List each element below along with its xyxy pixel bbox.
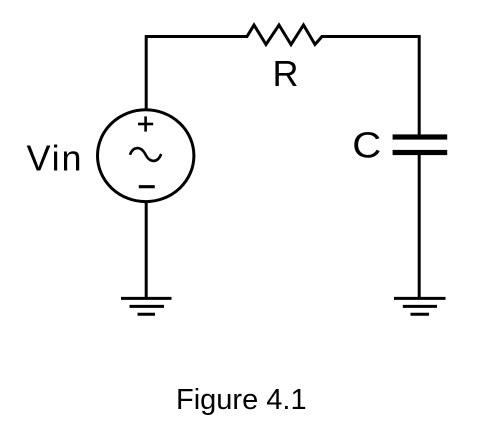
wire: top-left horizontal segment	[145, 35, 248, 38]
svg-text:Vin: Vin	[27, 138, 84, 179]
sine symbol inside source	[130, 148, 161, 161]
minus polarity mark	[139, 185, 155, 188]
svg-text:R: R	[273, 53, 299, 94]
voltage source Vin circle	[98, 110, 194, 202]
plus polarity mark	[138, 116, 153, 131]
svg-text:Figure 4.1: Figure 4.1	[176, 384, 307, 416]
capacitor C plates	[393, 134, 448, 155]
wire: capacitor bottom down to right ground	[418, 155, 421, 298]
wire: source bottom down to left ground	[145, 202, 148, 298]
wire: left vertical from top wire down to source	[145, 35, 148, 110]
ground (left)	[121, 298, 172, 314]
resistor R	[247, 25, 322, 45]
wire: right vertical from top wire down to capacitor	[418, 35, 421, 137]
wire: top-right horizontal segment	[321, 35, 421, 38]
ground (right)	[394, 298, 446, 314]
svg-text:C: C	[352, 124, 381, 165]
